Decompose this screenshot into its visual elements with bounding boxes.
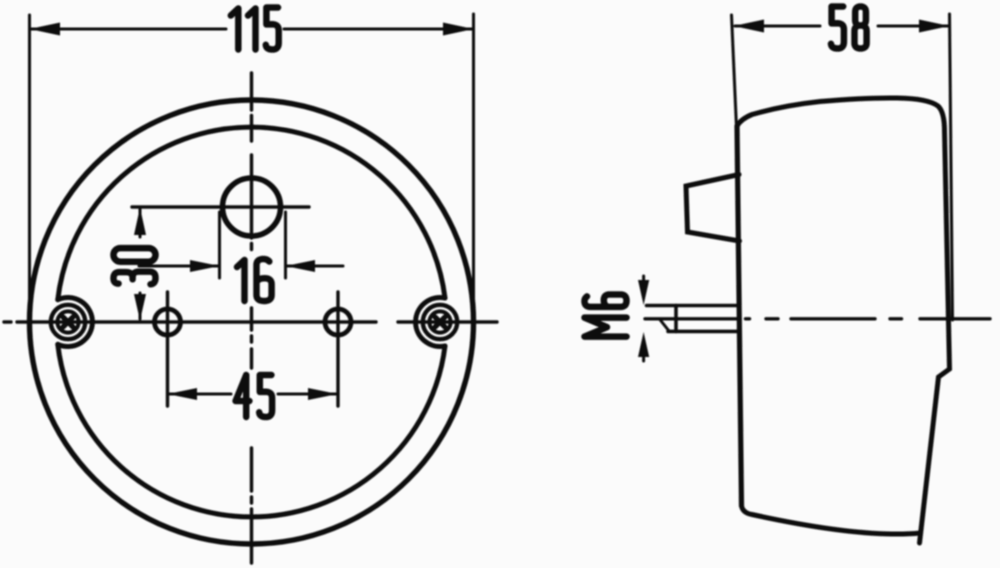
body top edge — [737, 98, 945, 131]
dim 115: left extension line — [28, 15, 31, 308]
dim 58: left arrow — [734, 20, 765, 33]
keyhole bump around left screw — [58, 298, 93, 347]
dim 30: bottom arrow (pointing down) — [134, 294, 146, 321]
keyhole bump around right screw — [416, 298, 445, 347]
small hole right vertical crosshair / extension — [336, 292, 339, 406]
stud M6: bottom line — [668, 330, 737, 334]
screw left: outer ring — [51, 305, 85, 339]
label 16 — [237, 259, 272, 301]
screw left: inner ring — [57, 311, 78, 332]
stud M6: end tick — [674, 306, 678, 332]
small hole left vertical crosshair / extension — [166, 292, 169, 406]
body bottom edge — [742, 506, 921, 534]
top hole dia 16 — [223, 178, 281, 236]
label 45 — [236, 375, 273, 417]
dim 16: dimension line pieces — [139, 265, 343, 268]
dim M6: upper shaft — [642, 276, 645, 288]
dim 45: dimension line pieces — [169, 393, 336, 396]
outer circle (lamp rim, dia 115) — [30, 100, 474, 544]
label 58 — [831, 7, 867, 49]
dim 58: right extension line — [950, 14, 953, 320]
lens right edge with step — [920, 131, 950, 543]
screw right: outer ring — [423, 305, 457, 339]
dim 45: right arrow (pointing right) — [308, 388, 338, 400]
dim M6: lower shaft — [642, 350, 645, 361]
dim 45: left arrow (pointing left) — [168, 388, 198, 400]
dim 16: right arrow (pointing left) — [286, 260, 316, 272]
inner circle (lens edge) lower arc — [58, 344, 445, 517]
dim 16: left arrow (pointing right) — [190, 260, 220, 272]
dim 16: right extension line — [284, 212, 287, 278]
screw right: inner ring — [429, 311, 450, 332]
vertical centerline — [250, 73, 253, 563]
screw left: cross recess — [63, 317, 73, 327]
dim 30: top arrow (pointing up) — [134, 208, 146, 236]
horizontal centerline — [4, 320, 497, 323]
body left face — [737, 126, 742, 506]
label 30 (rotated) — [114, 248, 156, 284]
dim M6: upper arrow (pointing down) — [638, 280, 649, 305]
top hole horizontal crosshair — [132, 205, 309, 208]
dim 58: left extension line — [732, 15, 737, 128]
dim M6: lower arrow (pointing up) — [638, 332, 649, 357]
dim 115: left arrow — [30, 23, 61, 36]
side view horizontal centerline — [645, 317, 990, 320]
mounting tab (left) — [686, 175, 740, 242]
small hole right (45 spacing) — [325, 309, 351, 335]
label 115 — [231, 8, 279, 50]
inner circle (lens edge) upper arc — [58, 127, 445, 300]
dim 58: right arrow — [919, 20, 950, 33]
dim 58: dimension line — [735, 25, 948, 28]
label M6 (rotated) — [585, 295, 627, 337]
dim 30: dimension line pieces — [139, 209, 142, 319]
screw right: cross recess — [435, 317, 445, 327]
dim 115: dimension line — [31, 28, 472, 31]
stud M6: top line — [647, 304, 738, 308]
dim 16: left extension line — [218, 212, 221, 278]
dim 115: right arrow — [443, 23, 474, 36]
dim 115: right extension line — [472, 14, 475, 300]
small hole left (45 spacing) — [155, 309, 181, 335]
stud M6: thread runout diagonal — [660, 319, 670, 331]
